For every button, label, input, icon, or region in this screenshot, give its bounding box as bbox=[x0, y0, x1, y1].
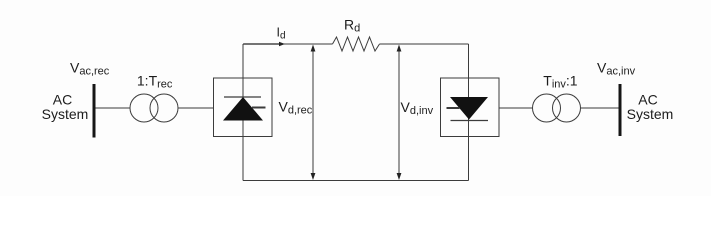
svg-text:System: System bbox=[42, 106, 89, 122]
AC System label (inverter side) bbox=[627, 92, 674, 123]
voltage arrow Vd,rec bbox=[311, 45, 316, 181]
wire bus to transformer Trec bbox=[96, 107, 131, 109]
wire transformer Trec to rectifier box bbox=[178, 107, 214, 109]
svg-text:1:Trec: 1:Trec bbox=[137, 72, 173, 90]
label Tinv:1 bbox=[543, 73, 578, 91]
wire bottom DC rail bbox=[243, 180, 469, 182]
label Vd,rec bbox=[279, 99, 313, 117]
voltage arrow Vd,inv bbox=[397, 45, 402, 181]
label Vac,inv bbox=[597, 60, 636, 78]
svg-text:Rd: Rd bbox=[344, 17, 360, 35]
svg-text:Vac,inv: Vac,inv bbox=[597, 60, 636, 78]
converter box U1 (rectifier) bbox=[214, 78, 273, 137]
current arrow Id bbox=[244, 42, 286, 46]
wire top DC rail (right of resistor) bbox=[380, 43, 469, 45]
label Id bbox=[277, 26, 286, 42]
wire top DC rail (left of resistor) bbox=[243, 43, 333, 45]
AC System label (rectifier side) bbox=[42, 92, 89, 123]
resistor Rd bbox=[333, 37, 380, 51]
wire inverter box to transformer Tinv bbox=[499, 107, 533, 109]
thyristor valve (rectifier) bbox=[223, 97, 266, 121]
transformer Trec bbox=[130, 94, 178, 122]
wire DC left riser bbox=[242, 44, 244, 181]
label Vac,rec bbox=[70, 60, 110, 78]
label Rd bbox=[344, 17, 360, 35]
svg-text:System: System bbox=[627, 106, 674, 122]
label 1:Trec bbox=[137, 72, 173, 90]
label Vd,inv bbox=[401, 99, 434, 117]
bus bar (inverter AC bus) bbox=[619, 84, 622, 136]
wire DC right riser bbox=[468, 44, 470, 181]
converter box U2 (inverter) bbox=[441, 78, 500, 137]
svg-text:Tinv:1: Tinv:1 bbox=[543, 73, 578, 91]
bus bar (rectifier AC bus) bbox=[93, 84, 96, 138]
svg-text:Vd,inv: Vd,inv bbox=[401, 99, 434, 117]
svg-text:Vd,rec: Vd,rec bbox=[279, 99, 313, 117]
svg-text:Id: Id bbox=[277, 26, 286, 42]
svg-text:Vac,rec: Vac,rec bbox=[70, 60, 110, 78]
wire transformer Tinv to bus bbox=[581, 107, 619, 109]
thyristor valve (inverter) bbox=[447, 97, 489, 121]
transformer Tinv bbox=[533, 94, 581, 122]
